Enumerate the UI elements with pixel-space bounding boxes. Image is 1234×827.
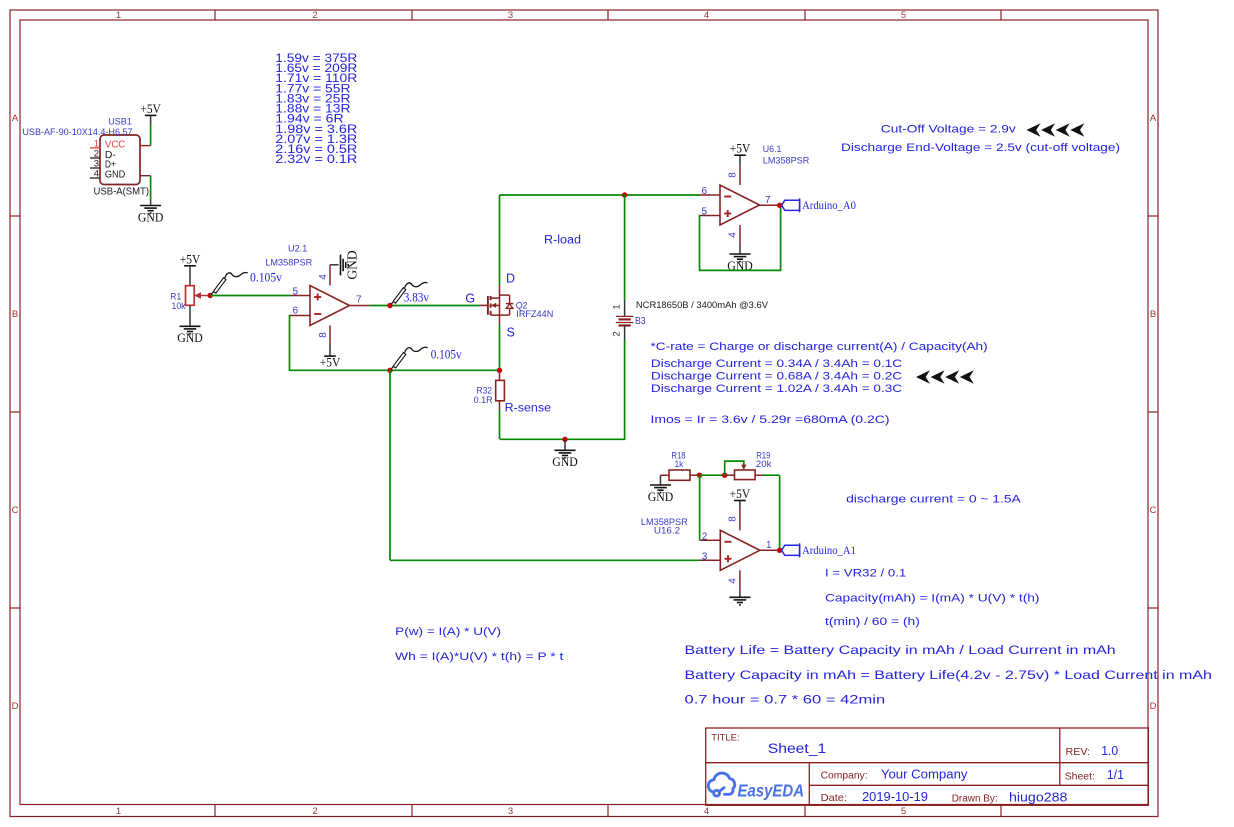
svg-text:B: B — [12, 309, 18, 320]
svg-text:+5V: +5V — [730, 141, 751, 156]
svg-text:TITLE:: TITLE: — [711, 733, 739, 744]
svg-text:Cut-Off Voltage = 2.9v: Cut-Off Voltage = 2.9v — [881, 124, 1016, 136]
svg-text:3: 3 — [508, 806, 513, 817]
svg-text:1: 1 — [116, 10, 121, 21]
svg-text:IRFZ44N: IRFZ44N — [516, 309, 553, 320]
svg-text:Sheet_1: Sheet_1 — [768, 741, 826, 756]
svg-text:S: S — [507, 325, 515, 339]
svg-text:2: 2 — [312, 10, 317, 21]
svg-text:1: 1 — [116, 806, 121, 817]
svg-text:Wh = I(A)*U(V) * t(h) = P * t: Wh = I(A)*U(V) * t(h) = P * t — [395, 651, 563, 663]
svg-text:Arduino_A1: Arduino_A1 — [802, 543, 856, 557]
svg-text:7: 7 — [765, 195, 771, 206]
svg-text:R-sense: R-sense — [505, 403, 551, 415]
svg-text:LM358PSR: LM358PSR — [763, 156, 810, 167]
svg-text:8: 8 — [318, 332, 329, 338]
svg-text:20k: 20k — [756, 459, 772, 469]
svg-text:D: D — [1150, 701, 1157, 712]
svg-text:C: C — [1150, 505, 1157, 516]
svg-text:2: 2 — [312, 806, 317, 817]
svg-text:4: 4 — [94, 169, 99, 180]
svg-text:1: 1 — [612, 304, 623, 309]
svg-text:1: 1 — [766, 540, 772, 551]
svg-text:1/1: 1/1 — [1107, 768, 1124, 782]
svg-text:6: 6 — [701, 186, 707, 197]
svg-text:Drawn By:: Drawn By: — [952, 792, 998, 804]
svg-text:+5V: +5V — [730, 486, 751, 501]
svg-text:VCC: VCC — [105, 139, 125, 150]
svg-text:Capacity(mAh) = I(mA) * U(V) *: Capacity(mAh) = I(mA) * U(V) * t(h) — [825, 593, 1040, 605]
svg-text:C: C — [12, 505, 19, 516]
svg-text:8: 8 — [727, 516, 738, 522]
svg-text:Battery Capacity in mAh = Batt: Battery Capacity in mAh = Battery Life(4… — [685, 668, 1213, 682]
svg-text:GND: GND — [105, 170, 125, 181]
svg-text:USB-AF-90-10X14.4-H6.57: USB-AF-90-10X14.4-H6.57 — [22, 127, 132, 138]
svg-text:I = VR32 / 0.1: I = VR32 / 0.1 — [825, 568, 906, 580]
svg-text:+5V: +5V — [320, 355, 341, 370]
svg-text:+5V: +5V — [180, 251, 201, 266]
svg-text:4: 4 — [727, 578, 738, 584]
svg-text:Date:: Date: — [821, 792, 847, 804]
svg-text:EasyEDA: EasyEDA — [738, 781, 805, 801]
svg-text:1.0: 1.0 — [1101, 744, 1118, 758]
svg-text:USB-A(SMT): USB-A(SMT) — [94, 186, 150, 198]
svg-text:+5V: +5V — [140, 101, 161, 116]
svg-text:discharge current = 0 ~ 1.5A: discharge current = 0 ~ 1.5A — [846, 493, 1021, 505]
svg-text:Battery Life = Battery Capacit: Battery Life = Battery Capacity in mAh /… — [685, 643, 1116, 657]
svg-text:0.1R: 0.1R — [474, 395, 493, 405]
svg-text:Sheet:: Sheet: — [1065, 771, 1095, 783]
svg-text:0.7 hour = 0.7 * 60 = 42min: 0.7 hour = 0.7 * 60 = 42min — [685, 693, 886, 707]
svg-text:U16.2: U16.2 — [654, 526, 680, 537]
svg-text:4: 4 — [318, 274, 329, 280]
svg-text:2: 2 — [612, 331, 623, 336]
svg-text:NCR18650B / 3400mAh @3.6V: NCR18650B / 3400mAh @3.6V — [636, 300, 769, 311]
svg-text:3.83v: 3.83v — [404, 291, 430, 305]
svg-text:5: 5 — [701, 207, 707, 218]
svg-text:2019-10-19: 2019-10-19 — [862, 790, 928, 804]
svg-text:t(min) / 60 = (h): t(min) / 60 = (h) — [825, 616, 920, 628]
svg-text:*C-rate = Charge or discharge: *C-rate = Charge or discharge current(A)… — [651, 341, 988, 353]
svg-text:Your Company: Your Company — [881, 767, 968, 781]
svg-text:6: 6 — [292, 306, 298, 317]
svg-text:D: D — [12, 701, 19, 712]
svg-text:P(w) = I(A) * U(V): P(w) = I(A) * U(V) — [395, 626, 501, 638]
svg-text:GND: GND — [648, 489, 674, 504]
svg-text:3: 3 — [702, 551, 708, 562]
svg-text:B3: B3 — [635, 315, 646, 327]
svg-text:U6.1: U6.1 — [763, 144, 782, 155]
svg-text:8: 8 — [728, 172, 739, 178]
svg-text:A: A — [12, 113, 19, 124]
svg-text:GND: GND — [552, 454, 578, 469]
svg-text:A: A — [1150, 113, 1157, 124]
svg-text:Discharge Current = 1.02A / 3.: Discharge Current = 1.02A / 3.4Ah = 0.3C — [651, 383, 902, 395]
svg-text:Discharge Current = 0.68A / 3.: Discharge Current = 0.68A / 3.4Ah = 0.2C — [651, 371, 902, 383]
svg-text:Discharge End-Voltage = 2.5v (: Discharge End-Voltage = 2.5v (cut-off vo… — [841, 142, 1120, 154]
svg-text:Discharge Current = 0.34A / 3.: Discharge Current = 0.34A / 3.4Ah = 0.1C — [651, 358, 902, 370]
svg-text:R-load: R-load — [544, 235, 581, 247]
svg-text:D: D — [506, 271, 515, 285]
svg-text:4: 4 — [704, 10, 709, 21]
svg-text:4: 4 — [704, 806, 709, 817]
svg-text:hiugo288: hiugo288 — [1009, 790, 1067, 804]
svg-text:4: 4 — [728, 232, 739, 238]
svg-text:LM358PSR: LM358PSR — [265, 258, 312, 269]
svg-text:3: 3 — [508, 10, 513, 21]
svg-text:0.105v: 0.105v — [250, 270, 283, 284]
svg-text:B: B — [1150, 309, 1156, 320]
svg-text:GND: GND — [345, 250, 360, 279]
svg-text:5: 5 — [901, 10, 906, 21]
svg-text:GND: GND — [138, 209, 164, 224]
svg-text:2.32v = 0.1R: 2.32v = 0.1R — [275, 154, 357, 166]
svg-text:5: 5 — [292, 287, 298, 298]
svg-text:USB1: USB1 — [108, 117, 132, 128]
svg-text:GND: GND — [177, 330, 203, 345]
svg-text:1k: 1k — [675, 459, 684, 469]
svg-text:G: G — [465, 291, 475, 305]
svg-text:0.105v: 0.105v — [431, 347, 463, 361]
svg-text:R1: R1 — [170, 292, 181, 302]
svg-text:7: 7 — [356, 295, 362, 306]
svg-text:Imos = Ir = 3.6v / 5.29r =680m: Imos = Ir = 3.6v / 5.29r =680mA (0.2C) — [651, 414, 890, 426]
svg-text:10k: 10k — [172, 301, 186, 311]
svg-text:5: 5 — [901, 806, 906, 817]
svg-text:Arduino_A0: Arduino_A0 — [802, 198, 856, 212]
svg-text:U2.1: U2.1 — [288, 244, 307, 255]
svg-text:REV:: REV: — [1066, 746, 1091, 758]
svg-text:Company:: Company: — [821, 769, 868, 781]
svg-text:2: 2 — [702, 531, 708, 542]
